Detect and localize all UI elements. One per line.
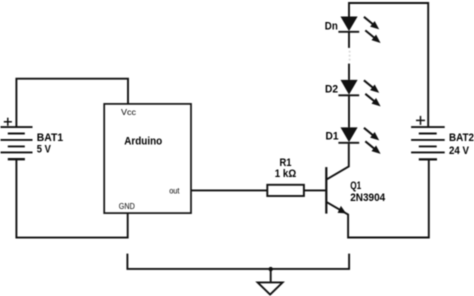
svg-text:1 kΩ: 1 kΩ (275, 168, 297, 180)
svg-text:Q1: Q1 (350, 180, 361, 192)
svg-text:BAT1: BAT1 (37, 132, 63, 144)
svg-text:BAT2: BAT2 (449, 132, 474, 144)
svg-text:D2: D2 (325, 84, 338, 96)
svg-text:Dn: Dn (325, 20, 338, 32)
svg-text:24 V: 24 V (449, 145, 470, 157)
svg-text:GND: GND (119, 202, 135, 211)
svg-text:D1: D1 (326, 130, 339, 142)
svg-text:Arduino: Arduino (124, 135, 162, 147)
svg-text:5 V: 5 V (37, 144, 52, 156)
svg-text:Vcc: Vcc (121, 108, 136, 117)
svg-text:2N3904: 2N3904 (350, 192, 386, 204)
svg-text:out: out (169, 186, 180, 195)
